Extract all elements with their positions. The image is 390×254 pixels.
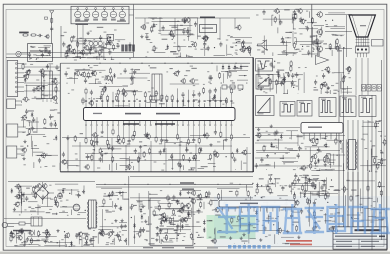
transistor Q175 — [330, 227, 334, 231]
resistor R163 — [384, 139, 386, 141]
node N56 — [149, 194, 150, 195]
label text — [309, 139, 311, 140]
wire 12V bus — [96, 186, 253, 188]
label text — [34, 192, 36, 193]
label text — [92, 153, 95, 154]
wire W98 — [208, 163, 216, 165]
label text — [357, 195, 360, 196]
transistor Q160 — [108, 232, 112, 236]
capacitor C128 — [234, 157, 236, 159]
ground — [35, 185, 37, 187]
label text — [65, 206, 68, 207]
resistor R157 — [310, 163, 312, 165]
transistor Q144 — [347, 67, 351, 71]
wire W241 — [362, 125, 379, 127]
wire W144 — [188, 29, 190, 41]
label text — [90, 31, 92, 32]
capacitor C109 — [63, 42, 65, 44]
label text — [230, 46, 234, 47]
resistor R195 — [153, 210, 155, 212]
label text — [295, 9, 299, 10]
wire W185 — [309, 11, 311, 17]
wire W63 — [73, 57, 86, 59]
label text — [197, 237, 201, 238]
label text — [178, 56, 181, 57]
wire W169 — [302, 53, 310, 55]
wire W240 — [363, 121, 374, 123]
diode D128 — [19, 194, 21, 196]
node N19 — [247, 47, 248, 48]
wire W106 — [59, 163, 61, 170]
resistor R149 — [276, 79, 278, 81]
diode D110 — [236, 148, 238, 150]
IC U1 top pin 21 — [193, 103, 195, 107]
wire W57 — [220, 82, 222, 84]
label text — [375, 171, 377, 172]
resistor R129 — [209, 153, 211, 155]
label text — [235, 52, 238, 53]
label text — [277, 62, 280, 63]
label text — [220, 236, 226, 237]
ground — [265, 78, 267, 80]
wire W301 — [30, 210, 36, 212]
resistor R208 — [293, 193, 295, 195]
label text — [261, 52, 264, 53]
label text — [187, 36, 190, 37]
wire W247 — [371, 146, 373, 155]
label text — [379, 120, 382, 121]
wire W75 — [183, 97, 185, 106]
label text — [212, 210, 214, 211]
wire W33 — [111, 57, 113, 60]
diode D102 — [43, 84, 45, 86]
wire W397 — [250, 238, 256, 240]
waveform scope box W3 — [256, 96, 275, 116]
transistor Q145 — [313, 154, 317, 158]
label text — [131, 69, 134, 70]
label text — [178, 216, 181, 217]
wire W216 — [340, 74, 342, 94]
label text — [193, 214, 196, 215]
IF coil L3 — [92, 11, 98, 17]
IC pin 27 bottom component — [90, 139, 92, 141]
ground — [87, 32, 89, 34]
transistor Q133 — [142, 25, 146, 29]
label text — [64, 32, 67, 33]
ground — [140, 145, 142, 147]
wire W413 — [310, 192, 312, 203]
ground — [45, 240, 47, 242]
wire mid rail y153 — [85, 153, 251, 155]
label text — [88, 228, 91, 229]
label text — [259, 78, 262, 79]
label text — [285, 72, 289, 73]
wire drop top — [174, 18, 176, 34]
wire W10 — [48, 84, 58, 86]
transistor Q142 — [322, 82, 326, 86]
label text — [104, 193, 106, 194]
label text — [268, 134, 271, 135]
label text — [14, 245, 17, 246]
wire drop top — [234, 18, 236, 29]
capacitor C189 — [24, 240, 26, 242]
label text — [52, 213, 58, 214]
label text — [40, 51, 43, 52]
label text — [64, 163, 67, 164]
capacitor C133 — [31, 126, 33, 128]
label text — [337, 212, 340, 213]
transistor Q122 — [93, 133, 97, 137]
resistor R140 — [243, 45, 245, 47]
label text — [192, 239, 194, 240]
label text — [221, 209, 223, 210]
label text — [54, 120, 56, 121]
label text — [181, 221, 183, 222]
wire W23 — [53, 101, 55, 104]
label text — [333, 93, 336, 94]
label text — [235, 45, 237, 46]
wire W221 — [342, 88, 346, 90]
label text — [16, 233, 19, 234]
wire W266 — [293, 185, 314, 187]
node N55 — [189, 197, 190, 198]
wire W257 — [274, 162, 276, 169]
label text — [278, 70, 284, 71]
IR receiver U6 box — [107, 34, 114, 41]
wire W202 — [258, 67, 260, 77]
wire W127 — [36, 154, 59, 156]
wire W431 — [347, 214, 361, 216]
capacitor C125 — [104, 86, 106, 88]
wire W146 — [177, 24, 179, 46]
wire rgb to crt 1 — [325, 14, 352, 16]
IC U4 pin 2 — [308, 133, 310, 140]
resistor R206 — [296, 225, 298, 227]
wire W38 — [129, 72, 150, 74]
wire W231 — [343, 163, 345, 171]
wire W97 — [120, 165, 128, 167]
wire drop W114 — [165, 148, 167, 172]
resistor R159 — [310, 156, 312, 158]
wire yoke lead 1 — [338, 47, 340, 227]
wire W422 — [337, 230, 339, 232]
label text — [382, 142, 385, 143]
label text — [52, 166, 55, 167]
wire W180 — [296, 38, 298, 45]
label text — [147, 52, 149, 53]
wire drop W107 — [67, 135, 69, 172]
wire W268 — [307, 178, 318, 180]
label text — [276, 146, 278, 147]
wire W249 — [373, 163, 381, 165]
IC pin 5 top component — [107, 95, 109, 97]
label text — [326, 26, 329, 27]
label text — [289, 138, 291, 139]
wire W83 — [172, 153, 174, 170]
wire W84 — [128, 156, 130, 170]
label text — [109, 199, 112, 200]
capacitor C147 — [207, 46, 209, 48]
IC U1 bottom pin 10 — [182, 121, 184, 125]
wire W43 — [67, 77, 78, 79]
AV jack pin 2 — [18, 67, 24, 69]
wire W9 — [44, 51, 51, 53]
IC U1 bottom pin 26 — [96, 121, 98, 125]
label text — [152, 19, 154, 20]
capacitor C172 — [297, 153, 299, 155]
diode D129 — [62, 188, 64, 190]
label text — [198, 36, 201, 37]
node N40 — [314, 188, 315, 189]
label text — [76, 41, 78, 42]
wire W250 — [384, 135, 386, 137]
resistor R164 — [375, 122, 377, 124]
label text — [179, 145, 182, 146]
capacitor C166 — [281, 81, 283, 83]
capacitor C113 — [106, 41, 108, 43]
wire W357 — [166, 229, 168, 233]
CRT board parts — [357, 48, 359, 50]
ground — [141, 35, 143, 37]
label text — [117, 43, 119, 44]
AV jack pin 7 — [18, 91, 24, 93]
capacitor C207 — [182, 206, 184, 208]
waveform scope box W6 — [319, 98, 336, 117]
wire W311 — [44, 245, 65, 247]
wire W59 — [216, 66, 218, 72]
label text — [279, 198, 281, 199]
label text — [248, 224, 251, 225]
wire W49 — [89, 82, 102, 84]
label text — [27, 71, 29, 72]
label text — [45, 154, 47, 155]
transistor Q126 — [62, 160, 66, 164]
wire W406 — [274, 234, 276, 244]
AV jack J2 box — [7, 61, 18, 97]
label text — [117, 236, 120, 237]
ground — [207, 36, 209, 38]
wire W93 — [132, 166, 134, 170]
capacitor C195 — [90, 238, 92, 240]
diode D141 — [188, 212, 190, 214]
label text — [71, 89, 74, 90]
label text — [89, 98, 91, 99]
label text — [160, 229, 163, 230]
wire W382 — [255, 230, 285, 232]
wire W69 — [119, 91, 143, 93]
label text — [241, 212, 243, 213]
node N4 — [80, 58, 81, 59]
capacitor C162 — [292, 73, 294, 75]
label text — [314, 217, 317, 218]
wire W405 — [214, 229, 216, 235]
IC U1 top pin 16 — [166, 103, 168, 107]
resistor R104 — [108, 36, 110, 38]
label text — [314, 87, 317, 88]
resistor R131 — [93, 140, 95, 142]
label text — [61, 35, 65, 36]
label text — [60, 201, 62, 202]
wire W316 — [59, 240, 61, 247]
label text — [183, 28, 185, 29]
label text — [316, 76, 318, 77]
transistor Q124 — [243, 150, 247, 154]
node N43 — [69, 193, 70, 194]
wire W433 — [341, 188, 348, 190]
label text — [80, 75, 82, 76]
ground — [258, 128, 260, 130]
label text — [169, 240, 172, 241]
node N34 — [337, 155, 338, 156]
capacitor C209 — [159, 229, 161, 231]
wire W139 — [173, 46, 186, 48]
label text — [112, 211, 115, 212]
wire W416 — [307, 190, 327, 192]
resistor R153 — [342, 76, 344, 78]
wire W414 — [334, 213, 336, 224]
label text — [106, 242, 109, 243]
ground — [24, 140, 26, 142]
transistor Q6 green amp — [317, 29, 322, 34]
label text — [193, 99, 198, 100]
transistor Q136 — [204, 36, 208, 40]
scan shadow bottom edge — [0, 252, 390, 254]
IC U1 bottom pin 21 — [123, 121, 125, 125]
capacitor C186 — [42, 195, 44, 197]
label text — [36, 80, 39, 81]
label text — [262, 225, 264, 226]
wire W129 — [31, 147, 39, 149]
resistor R150 — [290, 60, 292, 62]
node N29 — [343, 47, 344, 48]
wire W28 — [65, 53, 92, 55]
label text — [156, 24, 158, 25]
wire W264 — [289, 150, 298, 152]
node N65 — [252, 183, 253, 184]
ground — [270, 125, 272, 127]
wire section divider x133 — [133, 5, 135, 58]
label text — [190, 153, 193, 154]
wire W332 — [113, 238, 115, 245]
capacitor C204 — [140, 227, 142, 229]
label text — [151, 238, 154, 239]
wire W356 — [182, 211, 203, 213]
wire left av link — [24, 82, 60, 84]
capacitor C5 — [89, 48, 91, 50]
label text — [333, 90, 336, 91]
delay line DL1 box — [152, 74, 162, 100]
wire W167 — [263, 36, 265, 55]
label text — [235, 67, 238, 68]
wire W421 — [324, 213, 326, 224]
wire crt socket drop — [363, 53, 365, 57]
label text — [191, 199, 193, 200]
wire mid rail y137 — [62, 137, 250, 139]
wire W143 — [169, 25, 192, 27]
capacitor C151 — [263, 10, 265, 12]
diode D138 — [160, 220, 162, 222]
label text — [97, 168, 100, 169]
diode D108 — [200, 147, 202, 149]
label text — [17, 233, 20, 234]
wire W183 — [299, 28, 318, 30]
wire right rails — [255, 127, 300, 129]
wire W244 — [363, 133, 368, 135]
wire W246 — [378, 131, 382, 133]
label text — [91, 243, 94, 244]
label text — [325, 136, 328, 137]
label text — [80, 239, 82, 240]
wire W192 — [331, 50, 333, 56]
node N69 — [362, 207, 363, 208]
wire W409 — [220, 190, 222, 201]
wire W252 — [297, 135, 299, 147]
label text — [231, 47, 233, 48]
label text — [144, 239, 147, 240]
IC pin 3 bottom component — [220, 131, 222, 133]
IC U5 pin 7 — [259, 207, 261, 212]
label text — [301, 49, 303, 50]
diode D139 — [203, 220, 205, 222]
wire W95 — [223, 140, 225, 150]
diode D143 — [256, 210, 258, 212]
wire W325 — [15, 245, 24, 247]
capacitor C164 — [277, 69, 279, 71]
capacitor C7 — [101, 48, 103, 50]
ground — [124, 239, 126, 241]
wire W85 — [185, 142, 187, 152]
label text — [57, 112, 60, 113]
IC U1 top pin 22 — [198, 103, 200, 107]
label text — [300, 193, 305, 194]
IC pin 22 top component — [198, 92, 200, 94]
label text — [211, 240, 214, 241]
wire W298 — [71, 189, 73, 195]
label text — [18, 202, 21, 203]
IF coil L5 — [110, 11, 116, 17]
wire W122 — [27, 134, 45, 136]
label text — [277, 183, 279, 184]
wire W386 — [232, 225, 254, 227]
IC U1 top pin 14 — [155, 103, 157, 107]
wire W309 — [28, 236, 57, 238]
wire W14 — [56, 85, 58, 104]
resistor R187 — [167, 195, 169, 197]
label text — [160, 226, 164, 227]
wire W420 — [334, 228, 336, 232]
wire W13 — [41, 94, 52, 96]
waveform scope box W1 — [256, 59, 273, 72]
wire W238 — [378, 159, 387, 161]
capacitor C192 — [46, 234, 48, 236]
component below pin 18 — [138, 156, 140, 158]
capacitor C135 — [33, 117, 35, 119]
label text — [232, 82, 235, 83]
node N27 — [330, 46, 331, 47]
IC U1 bottom pin 12 — [171, 121, 173, 125]
wire W265 — [282, 155, 284, 159]
label text — [82, 233, 88, 234]
IC U1 top pin 7 — [117, 103, 119, 107]
wire W345 — [158, 203, 173, 205]
label text — [288, 201, 294, 202]
diode D111 — [163, 148, 165, 150]
wire W296 — [59, 211, 68, 213]
component below pin 1 — [231, 152, 233, 154]
label text — [39, 206, 41, 207]
label text — [173, 53, 179, 54]
capacitor C206 — [176, 200, 178, 202]
